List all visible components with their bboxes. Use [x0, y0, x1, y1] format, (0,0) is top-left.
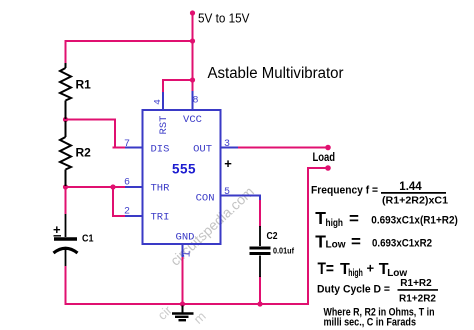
- svg-text:R2: R2: [76, 146, 92, 160]
- svg-text:(R1+2R2)xC1: (R1+2R2)xC1: [382, 195, 448, 207]
- svg-text:R1+2R2: R1+2R2: [399, 293, 436, 304]
- svg-text:Duty Cycle D =: Duty Cycle D =: [317, 283, 390, 295]
- pin 4 stub: [162, 92, 164, 110]
- svg-text:VCC: VCC: [183, 114, 202, 126]
- node load terminal upper: [325, 145, 331, 151]
- svg-text:2: 2: [124, 207, 130, 218]
- wire C2 riser bottom: [259, 276, 261, 305]
- svg-text:+: +: [53, 222, 61, 237]
- svg-text:Low: Low: [326, 240, 346, 251]
- svg-text:C2: C2: [267, 230, 278, 242]
- svg-text:0.01uf: 0.01uf: [273, 246, 294, 256]
- capacitor C2: [250, 226, 271, 277]
- svg-text:THR: THR: [151, 183, 171, 195]
- formula T total: [318, 259, 408, 279]
- capacitor C1 (polarized): [54, 214, 78, 266]
- wire pin7 vertical: [114, 119, 116, 148]
- pin 5 stub: [221, 196, 261, 201]
- svg-text:RST: RST: [158, 116, 170, 135]
- svg-text:R1: R1: [76, 77, 92, 91]
- wire top rail: [65, 40, 193, 42]
- svg-text:5V to 15V: 5V to 15V: [198, 11, 250, 26]
- node pin4/8 junction: [190, 77, 195, 82]
- svg-text:milli sec., C in Farads: milli sec., C in Farads: [324, 317, 417, 329]
- svg-text:R1+R2: R1+R2: [400, 278, 432, 289]
- node load terminal lower: [325, 165, 331, 171]
- IC U1 body: [143, 110, 221, 244]
- svg-text:3: 3: [224, 139, 230, 150]
- node rail junction: [190, 38, 195, 43]
- wire supply vertical: [192, 13, 194, 92]
- formula TLow: [315, 231, 432, 251]
- svg-text:high: high: [326, 218, 344, 229]
- svg-text:=: =: [351, 232, 361, 251]
- svg-text:1.44: 1.44: [399, 181, 422, 193]
- svg-text:+: +: [224, 156, 232, 171]
- svg-text:OUT: OUT: [193, 144, 212, 156]
- wire GND riser: [182, 256, 184, 304]
- IC U1 555 timer body and pin stubs: [125, 91, 260, 257]
- wire pin4 branch vertical: [162, 79, 164, 93]
- wire R2 bottom to pin6: [66, 186, 127, 188]
- svg-text:DIS: DIS: [151, 144, 170, 156]
- wire pin4 branch horizontal: [163, 79, 193, 81]
- svg-text:7: 7: [124, 139, 130, 150]
- wire load lower horizontal: [308, 167, 328, 169]
- svg-text:T=: T=: [318, 259, 335, 278]
- svg-text:Astable Multivibrator: Astable Multivibrator: [208, 65, 344, 82]
- svg-text:C1: C1: [82, 233, 94, 245]
- pin 8 stub: [192, 91, 194, 110]
- svg-text:5: 5: [224, 187, 230, 198]
- wire bottom rail: [65, 303, 309, 305]
- formula frequency: [311, 181, 448, 207]
- resistor R2: [60, 121, 71, 186]
- node R1-R2 junction: [63, 117, 68, 122]
- pin 3 stub: [221, 147, 239, 149]
- svg-text:Frequency f =: Frequency f =: [311, 185, 378, 197]
- svg-text:1: 1: [182, 250, 194, 257]
- svg-text:Load: Load: [313, 152, 336, 164]
- node C2 rail junction: [257, 301, 262, 306]
- pin 1 stub: [182, 244, 184, 257]
- svg-text:GND: GND: [176, 232, 195, 244]
- svg-text:+: +: [367, 261, 375, 276]
- pin 2 stub: [125, 215, 143, 217]
- svg-text:8: 8: [192, 96, 198, 107]
- svg-text:TRI: TRI: [151, 212, 170, 224]
- node pin2 branch junction: [110, 184, 115, 189]
- ground: [172, 306, 194, 321]
- node supply top: [190, 10, 195, 15]
- wire C2 riser top: [259, 198, 261, 227]
- wire pin7 horizontal: [113, 147, 127, 149]
- pin 6 stub: [125, 186, 143, 188]
- node R2-C1 junction: [63, 184, 68, 189]
- wire pin2 vertical: [112, 186, 114, 216]
- IC labels: [151, 114, 215, 244]
- note where: [324, 307, 435, 329]
- pin 7 stub: [125, 147, 143, 149]
- resistor R1: [60, 63, 71, 119]
- wire C1 top lead magenta: [65, 186, 67, 214]
- wire pin2 horizontal: [112, 215, 126, 217]
- pin numbers: [124, 96, 230, 258]
- svg-text:0.693xC1x(R1+R2): 0.693xC1x(R1+R2): [371, 215, 458, 227]
- svg-text:=: =: [349, 209, 359, 228]
- svg-text:CON: CON: [196, 193, 215, 205]
- wire C1 bottom magenta: [65, 266, 67, 305]
- svg-text:555: 555: [172, 162, 196, 177]
- svg-text:high: high: [348, 268, 363, 279]
- svg-text:0.693xC1xR2: 0.693xC1xR2: [372, 238, 432, 250]
- svg-text:4: 4: [152, 99, 163, 105]
- wire junction R1R2 to pin7 horizontal: [66, 119, 115, 121]
- wire R1 top: [65, 40, 67, 64]
- formula Thigh: [315, 208, 458, 229]
- wire load return vertical: [307, 167, 309, 305]
- node GND rail junction: [180, 301, 185, 306]
- wire OUT to load: [238, 147, 328, 149]
- svg-text:6: 6: [124, 178, 130, 189]
- formula duty cycle: [317, 278, 438, 305]
